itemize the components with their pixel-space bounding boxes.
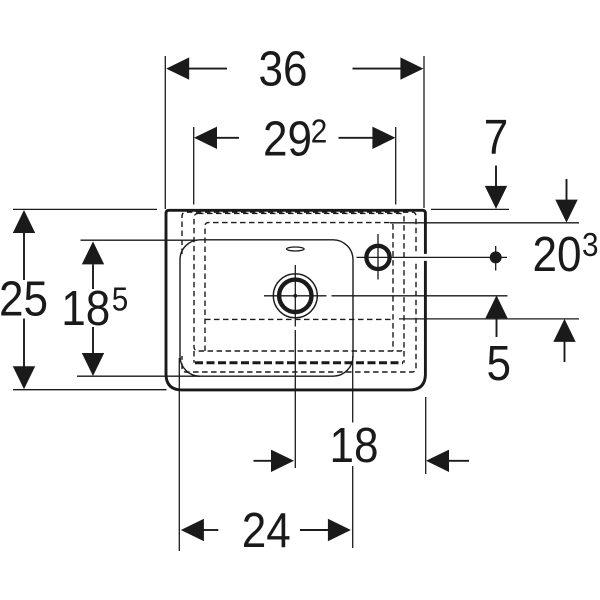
svg-text:18: 18 xyxy=(329,418,378,473)
svg-text:24: 24 xyxy=(242,503,291,558)
svg-text:7: 7 xyxy=(484,109,509,164)
svg-text:18: 18 xyxy=(61,281,110,336)
svg-text:29: 29 xyxy=(263,111,312,166)
svg-text:36: 36 xyxy=(258,41,307,96)
svg-text:5: 5 xyxy=(487,336,512,391)
svg-text:25: 25 xyxy=(0,271,48,326)
svg-text:2: 2 xyxy=(311,113,328,150)
svg-text:5: 5 xyxy=(112,281,129,318)
svg-text:20: 20 xyxy=(532,227,581,282)
svg-text:3: 3 xyxy=(582,227,599,264)
